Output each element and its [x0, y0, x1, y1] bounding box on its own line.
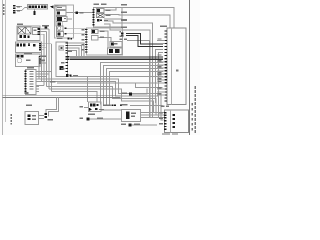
wire ECU to bottom 4: [110, 72, 164, 105]
bottom right box R: [165, 110, 189, 133]
G inner marks: [90, 104, 93, 107]
text after arrow: [55, 5, 59, 6]
wire vertical riser 3: [40, 34, 44, 85]
wire BCD to H pin: [67, 27, 87, 29]
wire elbow harness 1: [39, 79, 164, 120]
switch module box E: [94, 8, 123, 28]
H pin labels: [82, 29, 85, 30]
below G dashes: [88, 114, 95, 115]
wire double ground line 1: [3, 95, 121, 97]
bottom right box R inner line: [170, 110, 172, 133]
component F1 box: [17, 26, 40, 41]
wire elbow harness 2: [42, 82, 159, 118]
S labels: [121, 124, 126, 126]
R inner marks: [173, 114, 176, 116]
dark marks: [13, 5, 175, 130]
bus labels at pins: [158, 54, 162, 55]
N label: [121, 104, 128, 106]
wire elbow harness 4: [49, 89, 154, 113]
label above F2: [42, 25, 49, 27]
component H4 box: [108, 48, 123, 55]
label above F1: [17, 23, 23, 25]
label above J: [24, 53, 32, 55]
H1 dark mark: [92, 30, 95, 33]
F2 dark: [45, 27, 47, 29]
right ECU box Q: [167, 28, 186, 105]
wire H inner 2: [98, 38, 111, 42]
bottom left box L: [25, 112, 39, 125]
marks right of C: [76, 12, 79, 14]
I bottom text: [73, 75, 78, 76]
wire to G left: [84, 107, 89, 109]
wire ECU to bottom 1: [101, 63, 164, 105]
drop end marks: [45, 113, 48, 115]
wire BCD to H pin 2: [67, 33, 87, 35]
motor box J: [16, 54, 41, 67]
wire labels top right: [121, 4, 127, 6]
labels in E: [106, 9, 111, 10]
H pins: [85, 29, 87, 30]
staircase labels: [120, 31, 122, 32]
J pins: [39, 56, 41, 57]
isolated dark square inside I: [60, 66, 64, 70]
wire F1 out 1: [40, 28, 49, 30]
component H2 box: [92, 36, 99, 41]
component B box: [56, 6, 66, 10]
marks before staircase: [121, 33, 124, 35]
wire M: [90, 118, 122, 120]
wire ECU stubs: [157, 41, 164, 96]
wire: [104, 24, 150, 118]
K pins: [25, 71, 27, 72]
central box H: [87, 28, 123, 55]
E pins: [93, 9, 95, 11]
wire vertical riser 4: [40, 32, 47, 87]
G inner dashes: [103, 105, 110, 107]
Q inner label: [176, 70, 179, 72]
simulated tiny text dashes: [3, 4, 196, 135]
wire E mid out: [104, 18, 122, 20]
K pin labels: [30, 71, 34, 72]
mark near ground line: [25, 92, 29, 94]
F1 pins: [38, 28, 40, 30]
mid small label: [122, 92, 128, 94]
wire vertical riser 6: [42, 44, 52, 92]
X in E2 box: [97, 14, 105, 18]
wire long mid horizontal: [57, 82, 163, 84]
E1 dark mark: [97, 9, 100, 12]
X symbols: [18, 14, 104, 35]
inner comp box F1 right: [33, 28, 41, 35]
J inner text: [26, 60, 31, 61]
R pins: [164, 112, 167, 113]
X in F1 box: [18, 27, 31, 34]
wire elbow small: [132, 89, 147, 95]
wire L out 1: [39, 115, 45, 117]
label above L: [26, 105, 32, 107]
S mark: [129, 124, 132, 127]
wire drop from ground 1: [46, 98, 57, 114]
Q stub labels: [158, 38, 162, 39]
F1 inner marks: [20, 35, 23, 38]
text below F1 row: [28, 43, 30, 44]
G arrow: [89, 108, 92, 111]
wire: [104, 21, 153, 118]
wire bus top: [104, 8, 174, 29]
wire I pins join bus 1: [68, 43, 84, 57]
I pins dark top: [66, 56, 70, 58]
J wire labels: [40, 56, 46, 57]
component I box: [56, 42, 68, 77]
wire K pin fan: [36, 72, 52, 92]
marks above I box: [67, 37, 69, 39]
small dark mark below D: [58, 22, 62, 25]
caption under R: [162, 133, 170, 134]
left inner border line: [5, 0, 7, 122]
wire jog 1: [136, 83, 163, 88]
I inner symbol dot: [60, 47, 62, 49]
wire: [104, 15, 170, 29]
enclosing box around B C D: [55, 5, 74, 38]
wire S: [132, 124, 158, 126]
M arrow mark: [87, 118, 90, 121]
wire I bottom to G: [70, 77, 163, 103]
wire N: [130, 105, 163, 107]
M label: [80, 118, 84, 120]
left page border line: [2, 0, 4, 135]
label above E: [94, 4, 100, 6]
wire ECU to bottom 3: [107, 69, 164, 105]
G left label: [80, 106, 84, 108]
P inner text: [131, 112, 136, 113]
text right of D: [64, 18, 66, 19]
wire I pins join bus 3: [68, 48, 79, 57]
component D box: [56, 17, 67, 22]
wire thick bus A1: [70, 56, 163, 58]
component D3 box: [57, 32, 64, 37]
row of connector marks in JA: [17, 44, 19, 47]
wire vertical riser 2: [42, 46, 46, 82]
left margin vertical text: [3, 4, 5, 6]
label 1,2 near drop: [48, 119, 54, 121]
left lower vertical text: [11, 114, 12, 116]
wire double ground line 2: [3, 97, 121, 99]
motor circle J: [17, 58, 21, 62]
wire I pins join bus 4: [68, 51, 77, 57]
wire comp D out: [67, 18, 72, 20]
right margin text second column: [192, 103, 193, 106]
second symbol box F1: [26, 27, 32, 34]
wire L out 2: [39, 118, 45, 120]
G row2 marks: [95, 108, 97, 110]
wire: [127, 41, 150, 119]
wire P out 1: [141, 112, 165, 114]
D2 circle symbol: [58, 27, 61, 30]
connector pair labels: [17, 6, 20, 7]
small component below D: [56, 22, 63, 26]
connector pair A top: [13, 5, 16, 7]
JA pins: [39, 43, 41, 44]
label above I box top: [57, 38, 63, 40]
I box upper pins: [66, 42, 68, 43]
wire: [16, 6, 22, 8]
labels above R: [161, 106, 165, 107]
arrow after strip: [50, 5, 54, 8]
wire short end: [52, 92, 98, 103]
tick below strip: [34, 11, 36, 15]
component C box: [56, 11, 66, 16]
wire P out 3: [141, 117, 165, 119]
right page border line: [189, 0, 191, 135]
I pin labels: [61, 62, 65, 63]
component C dark mark: [57, 12, 60, 15]
component E1 box: [97, 9, 105, 13]
bottom center box G: [89, 102, 102, 112]
wire comp C: [66, 12, 94, 14]
inner symbol box I: [59, 46, 64, 50]
wire vertical riser 5: [40, 29, 49, 89]
wire: [159, 53, 164, 99]
R pin labels: [159, 112, 163, 113]
wire dark staircase 1: [126, 34, 163, 45]
D3 dark mark: [58, 33, 61, 36]
bottom connector marks row: [103, 105, 105, 107]
L text: [32, 115, 36, 116]
component D dark mark: [57, 17, 62, 21]
small mark mid: [129, 93, 132, 96]
labels inside H: [100, 30, 105, 31]
I bottom marks: [66, 74, 69, 77]
Q pins: [165, 30, 167, 31]
BCD pins right: [65, 28, 67, 29]
H4 dark marks: [109, 49, 113, 53]
wire: [156, 50, 164, 104]
F1 inner text: [34, 30, 37, 31]
wire ECU to bottom 2: [104, 66, 164, 105]
pin stack box K: [26, 70, 37, 95]
I pins: [66, 62, 68, 63]
wire G out: [101, 109, 122, 111]
wire: [16, 8, 28, 11]
connector pair A bottom: [13, 10, 16, 12]
L inner marks: [28, 115, 31, 117]
component H1 box: [92, 30, 99, 34]
E3 marks: [97, 19, 100, 22]
label comp B text: [57, 7, 62, 8]
wire: [34, 9, 36, 11]
component F2 box: [45, 26, 48, 29]
H3 mark: [111, 43, 114, 46]
right margin vertical text lower: [195, 86, 197, 89]
P dark mark: [126, 112, 129, 120]
connector strip pins: [29, 5, 31, 8]
J top marks: [17, 55, 20, 57]
wire vertical riser 1: [38, 57, 41, 80]
label on y85 wire: [50, 81, 56, 83]
wire I pins join bus 2: [68, 46, 82, 57]
wire thick bus A2: [70, 58, 163, 60]
wire H inner 1: [98, 31, 108, 48]
component H3 box: [110, 42, 122, 48]
text right of C: [80, 12, 84, 13]
wire J lower outs: [39, 61, 47, 63]
label above K: [27, 67, 34, 69]
label above Q: [160, 26, 167, 28]
label above I: [67, 50, 72, 52]
wire elbow harness 3: [47, 87, 157, 116]
relay box P: [122, 110, 141, 122]
wire P out 2: [141, 114, 165, 116]
component box JA: [16, 42, 42, 53]
right ECU inner line: [171, 28, 173, 105]
wire JA outs: [42, 48, 47, 50]
marks right in JA: [28, 44, 30, 46]
component boxes: [16, 5, 189, 133]
component E2 box: [97, 14, 105, 18]
wire drop from ground 2: [49, 98, 59, 117]
component D2 box: [57, 26, 64, 31]
wire dark staircase 2: [126, 36, 163, 47]
X symbol box F1: [18, 27, 26, 34]
connector strip box top: [28, 5, 48, 10]
